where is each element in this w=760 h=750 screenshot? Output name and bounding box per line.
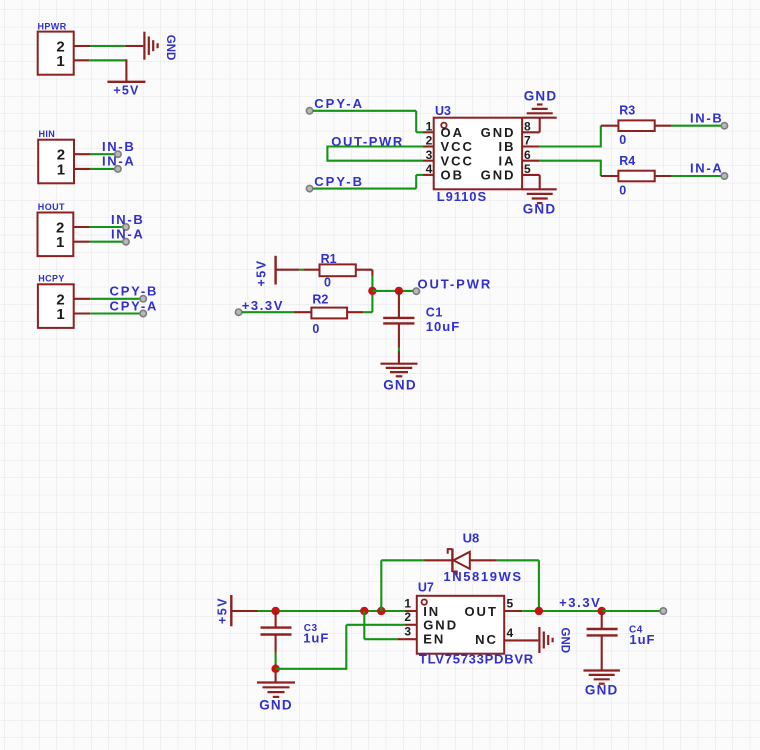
svg-text:1: 1 [57, 161, 65, 178]
svg-text:IN-B: IN-B [690, 110, 724, 125]
svg-text:CPY-B: CPY-B [110, 284, 159, 299]
svg-text:1uF: 1uF [303, 630, 329, 645]
svg-text:R1: R1 [321, 252, 337, 266]
svg-text:3: 3 [426, 148, 433, 162]
svg-text:1uF: 1uF [629, 632, 655, 647]
svg-text:OA: OA [441, 125, 465, 140]
svg-text:L9110S: L9110S [437, 189, 487, 204]
svg-text:GND: GND [164, 35, 176, 61]
svg-text:0: 0 [619, 133, 626, 147]
svg-text:+5V: +5V [113, 84, 139, 98]
svg-text:2: 2 [426, 134, 433, 148]
svg-text:+5V: +5V [216, 597, 230, 624]
svg-text:GND: GND [559, 628, 571, 654]
svg-text:CPY-A: CPY-A [314, 96, 364, 111]
svg-text:4: 4 [507, 626, 514, 640]
svg-text:GND: GND [585, 682, 619, 697]
svg-text:1: 1 [426, 120, 433, 134]
svg-text:VCC: VCC [441, 139, 474, 154]
svg-text:CPY-B: CPY-B [314, 174, 364, 189]
svg-text:0: 0 [324, 276, 331, 290]
svg-text:TLV75733PDBVR: TLV75733PDBVR [419, 651, 534, 666]
svg-text:2: 2 [404, 610, 411, 624]
svg-text:R4: R4 [619, 154, 635, 168]
svg-text:CPY-A: CPY-A [110, 298, 159, 313]
svg-text:5: 5 [507, 597, 514, 611]
svg-text:GND: GND [383, 377, 417, 392]
svg-text:EN: EN [423, 631, 445, 646]
svg-text:GND: GND [259, 697, 293, 712]
svg-text:IN-B: IN-B [111, 212, 145, 227]
svg-text:HCPY: HCPY [38, 274, 65, 284]
svg-text:OUT: OUT [464, 604, 497, 619]
svg-text:0: 0 [312, 322, 319, 336]
svg-text:IB: IB [499, 139, 516, 154]
svg-text:IA: IA [499, 153, 516, 168]
svg-text:1: 1 [56, 234, 64, 251]
svg-text:U3: U3 [435, 104, 451, 118]
svg-text:HPWR: HPWR [38, 22, 67, 32]
svg-text:GND: GND [481, 168, 516, 183]
svg-text:VCC: VCC [441, 153, 474, 168]
svg-text:C1: C1 [426, 306, 443, 320]
svg-text:GND: GND [481, 125, 516, 140]
svg-text:GND: GND [523, 202, 557, 217]
svg-text:IN-A: IN-A [111, 227, 145, 242]
svg-text:HOUT: HOUT [38, 202, 65, 212]
svg-text:4: 4 [426, 162, 433, 176]
svg-text:0: 0 [619, 183, 626, 197]
svg-text:1: 1 [404, 597, 411, 611]
svg-text:+3.3V: +3.3V [559, 595, 601, 610]
svg-text:OUT-PWR: OUT-PWR [418, 277, 493, 292]
svg-text:R3: R3 [619, 104, 635, 118]
svg-text:IN-B: IN-B [102, 139, 136, 154]
svg-text:HIN: HIN [39, 129, 56, 139]
svg-text:GND: GND [423, 618, 458, 633]
svg-text:+3.3V: +3.3V [242, 298, 284, 313]
svg-text:R2: R2 [312, 292, 328, 306]
svg-text:GND: GND [524, 89, 558, 104]
svg-text:+5V: +5V [255, 259, 269, 286]
svg-text:NC: NC [475, 632, 498, 647]
svg-text:IN-A: IN-A [690, 161, 724, 176]
svg-text:10uF: 10uF [426, 319, 460, 334]
svg-text:3: 3 [404, 624, 411, 638]
svg-text:U8: U8 [463, 530, 480, 545]
svg-text:1N5819WS: 1N5819WS [443, 569, 522, 584]
svg-text:1: 1 [56, 53, 64, 70]
svg-text:IN-A: IN-A [102, 154, 136, 169]
svg-text:U7: U7 [418, 580, 434, 594]
svg-text:OB: OB [441, 168, 465, 183]
svg-text:1: 1 [56, 306, 64, 323]
